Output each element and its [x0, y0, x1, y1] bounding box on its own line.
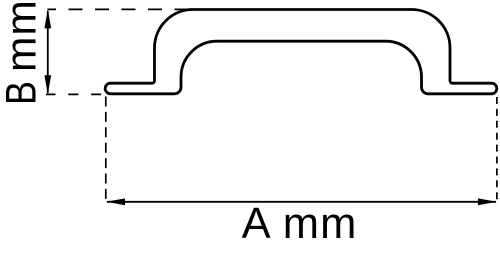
svg-text:A mm: A mm	[242, 200, 358, 248]
arrowhead B bottom	[44, 75, 51, 94]
handle outline	[105, 10, 497, 94]
svg-text:mm: mm	[0, 0, 46, 72]
extension line right vertical dashed	[496, 97, 498, 201]
arrowhead B top	[44, 9, 51, 28]
dimension line B	[47, 11, 49, 93]
extension line bottom-left dashed	[46, 93, 106, 95]
svg-text:B: B	[0, 81, 45, 105]
extension line left vertical dashed	[105, 97, 107, 202]
dimension line A	[107, 201, 496, 203]
arrowhead A right	[478, 198, 497, 205]
extension line top dashed	[47, 8, 188, 10]
arrowhead A left	[106, 198, 125, 205]
